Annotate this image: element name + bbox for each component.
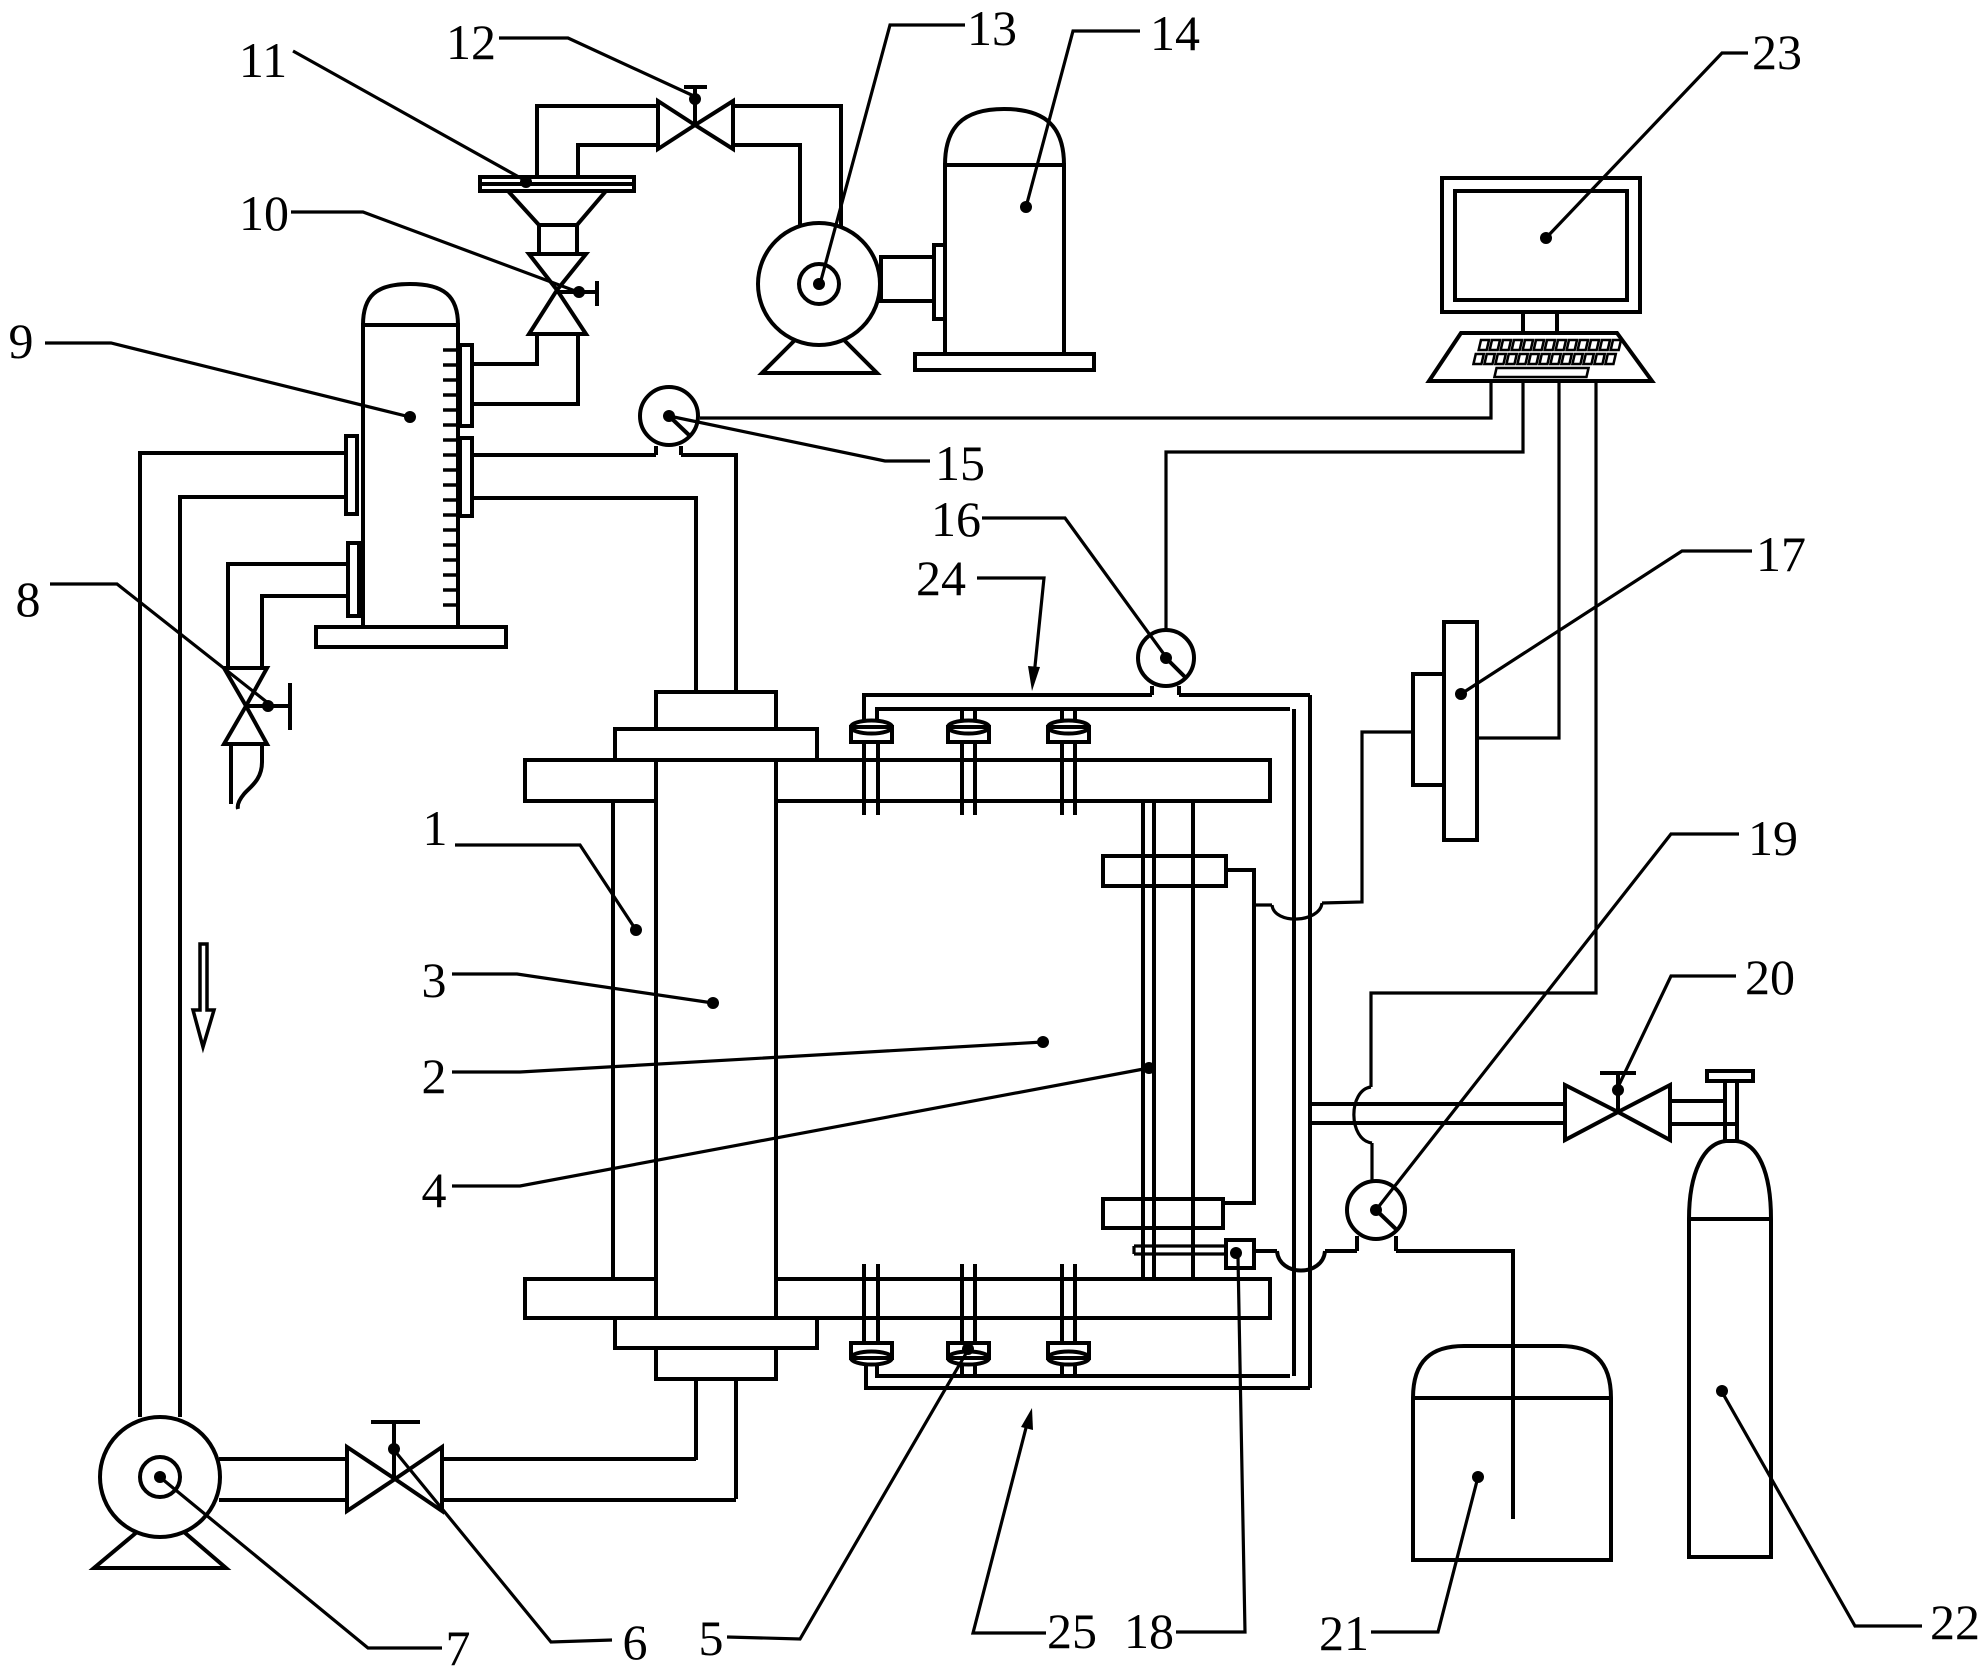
- bottom injector c: [1048, 1264, 1089, 1376]
- tube 4 bottom clamp: [1103, 1199, 1223, 1228]
- svg-text:5: 5: [699, 1610, 724, 1666]
- column 9 left lower flange: [348, 543, 359, 616]
- vessel bottom nozzle upper flange: [615, 1318, 817, 1348]
- gauge 15 center dot: [663, 410, 675, 422]
- pipe pump7 to valve 6: [219, 1459, 347, 1500]
- wire gauge16 to computer: [1166, 381, 1523, 630]
- pipe funnel to valve 12: [537, 106, 658, 177]
- leader 15: [669, 416, 930, 461]
- valve 12 stem dot: [689, 93, 701, 105]
- pump 7: [94, 1417, 226, 1568]
- gauge 16: [1138, 630, 1194, 695]
- pipe valve10 to column 9: [472, 334, 578, 404]
- left loop pipe: [140, 453, 346, 1417]
- svg-text:12: 12: [446, 14, 496, 70]
- ball valve 19: [1347, 1181, 1405, 1239]
- svg-text:13: 13: [967, 0, 1017, 56]
- component 17: [1413, 622, 1477, 840]
- svg-text:1: 1: [423, 800, 448, 856]
- keyboard keys: [1470, 340, 1621, 377]
- svg-text:6: 6: [623, 1614, 648, 1669]
- svg-text:19: 19: [1748, 810, 1798, 866]
- right loop pipe: [1294, 695, 1310, 1388]
- leader 23: [1546, 53, 1748, 238]
- valve 6 stem dot: [388, 1443, 400, 1455]
- gas cylinder 22 valve: [1707, 1071, 1753, 1143]
- leader 20: [1618, 976, 1736, 1087]
- valve 6: [347, 1422, 442, 1511]
- inner tube 4: [1143, 801, 1193, 1279]
- svg-text:8: 8: [16, 571, 41, 627]
- leader 14: [1026, 31, 1140, 207]
- leader 10: [291, 212, 578, 292]
- pipe valve 6 to vessel bottom: [442, 1459, 736, 1500]
- sensor box 18: [1226, 1240, 1254, 1268]
- sensor 18 left lines: [1134, 1246, 1226, 1254]
- column 9 right upper flange: [460, 345, 472, 426]
- tube 4 tie rod: [1223, 870, 1254, 1203]
- pump 13 hub dot: [813, 278, 825, 290]
- svg-text:10: 10: [239, 185, 289, 241]
- leader 17: [1461, 551, 1752, 694]
- pipe column9 to valve 8: [228, 564, 346, 668]
- gauge 15: [640, 387, 698, 455]
- leader 4: [452, 1068, 1149, 1186]
- leader 12: [499, 38, 696, 97]
- svg-text:23: 23: [1752, 24, 1802, 80]
- svg-text:14: 14: [1150, 5, 1200, 61]
- vessel top nozzle lower flange: [615, 729, 817, 760]
- wire gauge15 to computer: [700, 381, 1491, 418]
- component 17 dot: [1455, 688, 1467, 700]
- motor 14 body: [915, 109, 1094, 370]
- gas cylinder 22: [1689, 1141, 1771, 1557]
- sensor 18 dot: [1230, 1247, 1242, 1259]
- valve 8 drain spout: [231, 742, 262, 809]
- svg-text:22: 22: [1930, 1594, 1980, 1650]
- valve 20 stem dot: [1612, 1084, 1624, 1096]
- svg-text:9: 9: [9, 313, 34, 369]
- top injector c: [1048, 709, 1089, 815]
- valve 20: [1565, 1073, 1670, 1140]
- valve 19 center dot: [1370, 1204, 1382, 1216]
- vessel bottom nozzle pipe: [696, 1379, 736, 1499]
- bottom manifold 25: [866, 1364, 1310, 1388]
- flow arrow down: [193, 944, 214, 1047]
- sense line tube4 to component 17: [1254, 732, 1413, 919]
- svg-text:4: 4: [422, 1162, 447, 1218]
- leader 25 arrow: [973, 1424, 1046, 1633]
- svg-text:3: 3: [422, 952, 447, 1008]
- wire computer to valve19: [1354, 381, 1596, 1181]
- svg-text:18: 18: [1124, 1603, 1174, 1659]
- top injector b: [948, 709, 989, 815]
- pipe valve 12 to pump 13: [733, 106, 841, 227]
- pump 7 hub dot: [154, 1471, 166, 1483]
- pipe column9 to vessel top nozzle: [472, 455, 736, 692]
- column 9 body: [316, 284, 506, 647]
- valve 12: [658, 87, 733, 149]
- leader 3: [452, 974, 713, 1003]
- leader 2: [452, 1042, 1043, 1072]
- leader 19: [1376, 834, 1739, 1210]
- leader 13: [820, 25, 965, 284]
- valve 10: [529, 254, 598, 334]
- valve 19 outlet piping: [1254, 1236, 1513, 1519]
- leader 7: [161, 1478, 442, 1648]
- funnel 11 plate: [480, 177, 634, 191]
- bottom injector a: [851, 1264, 892, 1365]
- leader 22: [1722, 1392, 1922, 1626]
- pipe vessel to valve 20: [1310, 1104, 1565, 1123]
- computer 23 monitor: [1442, 178, 1640, 333]
- vessel 1 top lid: [525, 760, 1270, 801]
- bottom injector b: [948, 1264, 989, 1376]
- column 9 scale ticks: [443, 350, 458, 605]
- inner cylinder 3: [656, 760, 776, 1318]
- leader 16: [982, 518, 1166, 657]
- leader 11: [293, 51, 526, 181]
- svg-text:21: 21: [1319, 1605, 1369, 1661]
- vessel 1 bottom lid: [525, 1279, 1270, 1318]
- leader 9: [45, 343, 410, 417]
- funnel 11 cone: [508, 191, 606, 254]
- svg-text:17: 17: [1756, 526, 1806, 582]
- vessel 1 left wall: [611, 801, 615, 1279]
- svg-text:7: 7: [446, 1620, 471, 1669]
- tank 21: [1413, 1346, 1611, 1560]
- pump 13: [758, 223, 880, 373]
- svg-text:20: 20: [1745, 949, 1795, 1005]
- leader 8: [50, 584, 268, 703]
- svg-text:25: 25: [1047, 1603, 1097, 1659]
- svg-text:2: 2: [422, 1048, 447, 1104]
- svg-text:11: 11: [239, 32, 287, 88]
- top manifold 24: [864, 695, 1310, 722]
- valve 8: [224, 668, 290, 744]
- gauge 16 center dot: [1160, 652, 1172, 664]
- vessel top nozzle flange: [656, 692, 776, 729]
- column 9 right middle flange: [460, 438, 472, 516]
- wire 17 to computer: [1477, 381, 1559, 738]
- svg-text:15: 15: [935, 435, 985, 491]
- tube 4 top clamp: [1103, 856, 1226, 886]
- valve 10 stem dot: [573, 286, 585, 298]
- leader 1: [455, 845, 636, 930]
- leader 6: [394, 1450, 612, 1642]
- svg-text:16: 16: [931, 491, 981, 547]
- vessel bottom nozzle flange: [656, 1348, 776, 1379]
- svg-text:24: 24: [916, 550, 966, 606]
- top injector a: [851, 721, 892, 816]
- leader 21: [1371, 1477, 1478, 1632]
- leader 5: [727, 1350, 968, 1639]
- column 9 left upper flange: [346, 436, 357, 514]
- pipe valve 20 to cylinder valve: [1670, 1101, 1737, 1124]
- leader 24 arrow: [977, 578, 1044, 676]
- coupling pump13-motor14: [881, 245, 945, 319]
- computer 23 keyboard: [1429, 333, 1652, 381]
- valve 8 stem dot: [262, 700, 274, 712]
- leader 18: [1176, 1257, 1245, 1632]
